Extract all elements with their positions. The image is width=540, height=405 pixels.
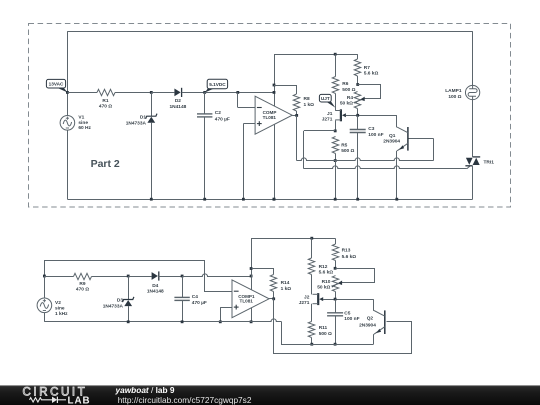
potentiometer R10 wiper arrow [332,283,338,287]
potentiometer R10 50k [332,276,338,292]
resistor R14 1k [252,269,274,275]
svg-text:13VAC: 13VAC [49,82,64,87]
wire op-amp output down [296,115,298,160]
wire Q1 base loop right side [433,138,435,160]
svg-text:5.6 kΩ: 5.6 kΩ [364,70,379,76]
svg-text:500 Ω: 500 Ω [341,148,354,154]
node R7/R4 wiper loop [356,83,359,86]
wire output run to Q1 base loop [297,158,434,161]
svg-text:470 Ω: 470 Ω [76,287,89,293]
node R5 bottom [334,159,337,162]
svg-text:1N4733A: 1N4733A [103,303,124,309]
svg-text:sine: sine [55,305,65,311]
svg-text:5.6 kΩ: 5.6 kΩ [319,270,334,276]
svg-text:J271: J271 [299,300,310,306]
svg-text:sine: sine [78,120,88,126]
wire gate diagonal [467,166,471,169]
wire triac gate run [304,166,467,169]
svg-text:Q1: Q1 [389,133,396,139]
svg-text:R11: R11 [319,325,328,331]
svg-text:http://circuitlab.com/c5727cgw: http://circuitlab.com/c5727cgwqp7s2 [118,395,252,405]
svg-text:yawboat / lab 9: yawboat / lab 9 [115,385,175,395]
svg-text:TRI1: TRI1 [484,159,495,165]
op-amp V+ pin wire [274,54,276,106]
wire [92,276,129,278]
node R6 top [334,53,337,56]
op-amp output stub [269,298,274,300]
svg-text:1 kΩ: 1 kΩ [281,286,292,292]
source V2 [37,298,52,313]
node R1/D1/D2 [150,91,153,94]
wire [67,92,97,94]
svg-text:V2: V2 [55,300,61,306]
svg-text:2N3904: 2N3904 [359,322,376,328]
zener diode D1 1N4733A [151,92,153,116]
wire Q2 emitter down [373,334,375,344]
wire [44,276,73,278]
potentiometer R4 50k [354,92,360,109]
dashed enclosure box (Part 2) [29,24,511,208]
svg-text:C2: C2 [215,110,221,116]
capacitor C4 470uF [182,276,184,297]
capacitor C3 100nF [357,115,359,129]
svg-text:50 kΩ: 50 kΩ [317,285,330,291]
svg-text:Q2: Q2 [367,316,374,322]
wire Q1 emitter down [396,151,398,199]
svg-text:LAMP1: LAMP1 [445,88,462,94]
svg-text:100 Ω: 100 Ω [448,94,461,100]
node COMP1 output [272,297,275,300]
node J1 source / R5 [334,130,337,133]
wire top branch [251,238,335,240]
wire J1 source to left [304,130,335,132]
node op-amp output [295,114,298,117]
wire down to triac gate run [303,131,305,169]
svg-text:R5: R5 [341,143,347,149]
svg-text:R7: R7 [364,65,370,71]
svg-text:1N4148: 1N4148 [169,104,186,110]
svg-text:R12: R12 [319,264,328,270]
svg-text:R10: R10 [322,279,331,285]
op-amp V- pin wire [251,308,253,322]
source V1 [60,116,75,131]
svg-text:470 µF: 470 µF [192,300,207,306]
svg-text:5.6 kΩ: 5.6 kΩ [342,254,357,260]
svg-text:D3: D3 [117,298,123,304]
node R13/R10 wiper loop [334,267,337,270]
svg-text:UJT: UJT [321,96,330,101]
net flag 5.1VDC [205,88,215,92]
wire left vertical [67,31,69,92]
node R10 bottom / C5 / gate [334,298,337,301]
diode D4 1N4148 [152,272,158,280]
wire 5.1VDC rail [205,92,274,94]
resistor R7 5.6k [357,54,359,59]
svg-text:C4: C4 [192,294,198,300]
svg-text:J2: J2 [304,295,310,301]
gate wire to Q2 collector [323,299,373,301]
wire [44,276,46,298]
svg-text:1 kΩ: 1 kΩ [304,102,315,108]
svg-text:LAB: LAB [68,395,91,405]
wire [115,92,151,94]
wire COMP1 output to Q2 base loop [274,299,412,354]
op-amp COMP1 TL081 [232,280,269,318]
logo resistor-diode glyph [30,398,53,402]
svg-text:R9: R9 [79,281,85,287]
wire bottom ground rail [67,199,472,201]
resistor R8 1k [274,85,297,87]
svg-text:50 kΩ: 50 kΩ [340,101,353,107]
node inverting input tap [236,91,239,94]
resistor R13 5.6k [335,238,337,244]
net flag 13VAC [57,88,68,93]
wire [44,313,46,322]
svg-text:5.1VDC: 5.1VDC [209,82,226,87]
svg-text:D2: D2 [175,98,181,104]
svg-text:R13: R13 [342,248,351,254]
lamp LAMP1 100ohm [472,31,474,85]
capacitor C5 100nF [335,299,337,313]
op-amp output stub [292,115,297,117]
node V2 top [43,275,46,278]
triac TRI1 [473,156,481,158]
wire non-inverting input to ground [220,307,232,309]
svg-text:V1: V1 [78,115,84,121]
node D3 top [127,275,130,278]
svg-text:R8: R8 [304,96,310,102]
potentiometer R4 wiper arrow [354,100,360,104]
svg-text:R14: R14 [281,280,290,286]
svg-text:1N4148: 1N4148 [147,289,164,295]
svg-text:J271: J271 [322,116,333,122]
svg-text:C3: C3 [368,126,374,132]
svg-text:C5: C5 [344,310,350,316]
wire R5 to ground [335,161,337,200]
wire ground dogleg [282,322,374,345]
capacitor C2 470uF [204,92,206,114]
svg-text:2N3904: 2N3904 [383,139,400,145]
svg-text:TL081: TL081 [240,299,254,304]
svg-text:500 Ω: 500 Ω [319,331,332,337]
node C4 top [181,275,184,278]
node 5.1VDC junction [203,91,206,94]
resistor R5 500 [332,137,338,154]
resistor R6 500 [335,54,337,76]
jfet J2 J271 [317,293,319,305]
resistor R11 500 [308,322,314,338]
svg-text:500 Ω: 500 Ω [342,87,355,93]
wire 5.1VDC upper branch [274,54,358,56]
jfet J1 J271 [340,109,342,121]
resistor R9 470 [74,273,92,279]
svg-text:1N4733A: 1N4733A [126,120,147,126]
svg-text:470 Ω: 470 Ω [99,104,112,110]
resistor R12 5.6k [311,238,313,258]
svg-text:100 nF: 100 nF [368,132,383,138]
zener diode D3 1N4733A [128,276,130,300]
op-amp V+ pin riser [251,238,253,289]
wire top rail [67,31,472,33]
wire bottom ground rail [44,319,281,322]
wire J2 drain/source [311,275,313,295]
resistor R1 [97,89,115,95]
svg-text:R1: R1 [102,98,108,104]
wire J1 drain up / source down [335,94,337,111]
svg-text:60 Hz: 60 Hz [78,125,91,131]
wire R10 wiper feedback loop [336,269,375,283]
transistor Q2 2N3904 [384,310,386,334]
svg-text:D1: D1 [140,115,146,121]
wire to inverting input [237,92,239,107]
net flag UJT [326,102,335,108]
node R12 top [310,237,313,240]
svg-text:J1: J1 [327,111,333,117]
diode D2 1N4148 [174,89,180,97]
wire V2 top feedback to inverting input [45,261,233,292]
svg-text:TL081: TL081 [263,115,277,120]
wire to non-inverting input [243,123,255,125]
svg-text:R4: R4 [347,95,353,101]
svg-text:100 nF: 100 nF [344,316,359,322]
wire R4 wiper feedback loop [358,85,381,99]
footer bar [0,385,540,405]
node 13VAC junction [66,91,69,94]
svg-text:D4: D4 [152,283,158,289]
transistor Q1 2N3904 [407,127,409,151]
svg-text:R6: R6 [342,81,348,87]
svg-text:Part 2: Part 2 [91,158,120,170]
svg-text:470 µF: 470 µF [215,116,230,122]
op-amp COMP TL081 [255,96,292,134]
node R4 bottom / C3 / gate [356,114,359,117]
svg-text:1 kHz: 1 kHz [55,311,68,317]
op-amp V- pin wire [274,125,276,200]
wire gate to Q1 collector [346,115,397,117]
wire main to op-amp [182,274,251,277]
